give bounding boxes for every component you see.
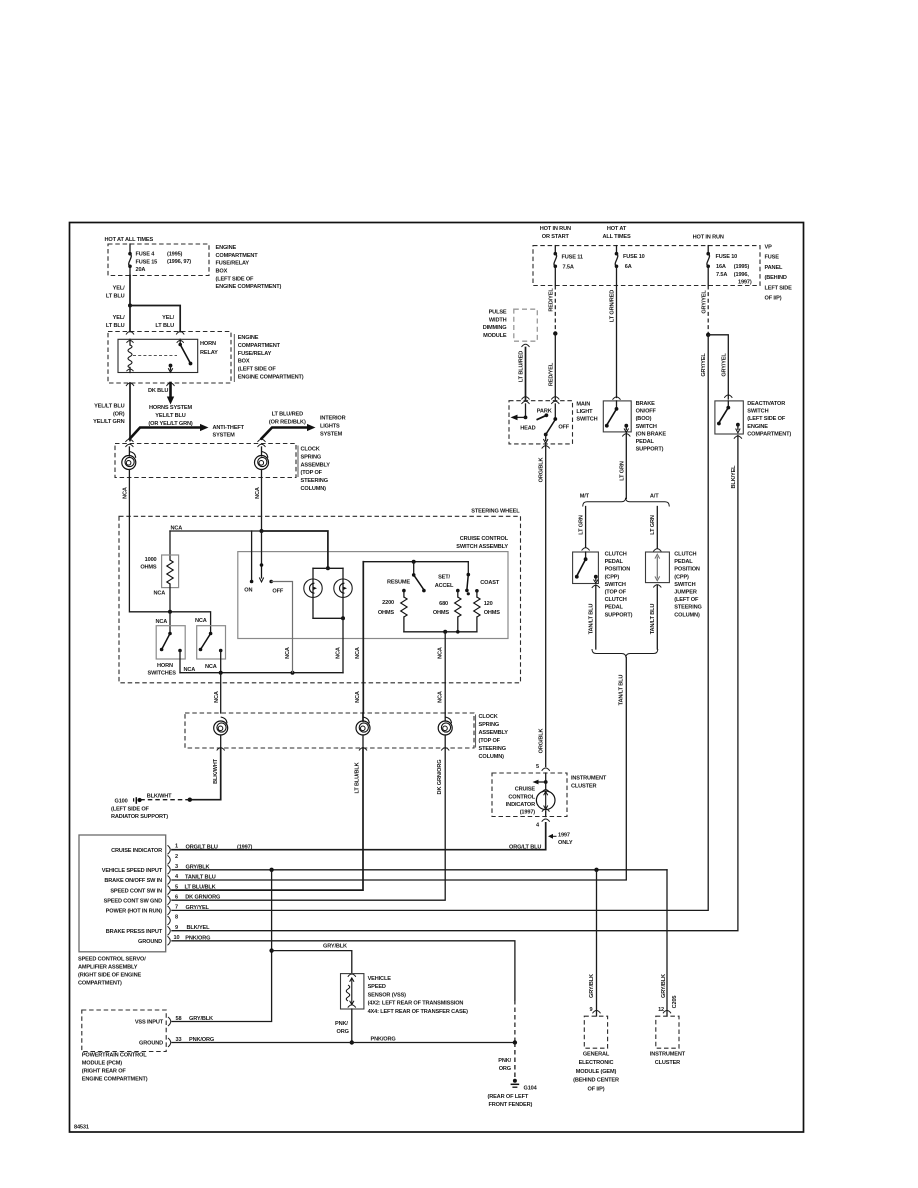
svg-text:NCA: NCA xyxy=(214,691,220,703)
svg-text:VEHICLE: VEHICLE xyxy=(368,976,392,982)
svg-text:GRY/BLK: GRY/BLK xyxy=(323,944,347,950)
PCM pin numbers 58 33 xyxy=(176,1016,182,1043)
svg-text:SPEED CONT SW IN: SPEED CONT SW IN xyxy=(110,888,162,894)
svg-text:SPEED: SPEED xyxy=(368,984,386,990)
svg-text:NCA: NCA xyxy=(336,647,342,659)
svg-text:(OR YEL/LT GRN): (OR YEL/LT GRN) xyxy=(148,421,192,427)
svg-text:RED/YEL: RED/YEL xyxy=(549,288,555,312)
svg-text:ASSEMBLY: ASSEMBLY xyxy=(479,730,509,736)
svg-text:ANTI-THEFT: ANTI-THEFT xyxy=(213,425,245,431)
svg-text:NCA: NCA xyxy=(285,647,291,659)
svg-text:(TOP OF: (TOP OF xyxy=(479,738,501,744)
svg-text:FUSE 15: FUSE 15 xyxy=(136,260,158,266)
svg-text:GRY/YEL: GRY/YEL xyxy=(701,290,707,314)
svg-text:ON: ON xyxy=(244,588,252,594)
svg-text:PEDAL: PEDAL xyxy=(605,559,624,565)
horn switch 1 xyxy=(156,619,186,673)
svg-text:FUSE: FUSE xyxy=(765,255,780,261)
net HOT IN RUN OR START xyxy=(540,226,571,240)
svg-text:CRUISE: CRUISE xyxy=(515,787,536,793)
svg-text:DEACTIVATOR: DEACTIVATOR xyxy=(747,401,785,407)
svg-text:DK GRN/ORG: DK GRN/ORG xyxy=(437,760,443,795)
svg-text:COMPARTMENT): COMPARTMENT) xyxy=(747,431,791,437)
svg-text:OHMS: OHMS xyxy=(484,610,501,616)
svg-text:YEL/: YEL/ xyxy=(113,315,125,321)
wire LT GRN A/T branch xyxy=(650,507,661,552)
svg-text:SYSTEM: SYSTEM xyxy=(213,433,236,439)
ground G104 xyxy=(511,1079,538,1092)
svg-text:TAN/LT BLU: TAN/LT BLU xyxy=(619,675,625,706)
cruise control indicator box (dashed) xyxy=(492,773,567,817)
vehicle speed sensor VSS xyxy=(341,974,364,1009)
svg-text:7.5A: 7.5A xyxy=(563,265,574,271)
svg-text:OF I/P): OF I/P) xyxy=(588,1087,605,1093)
label deactivator switch xyxy=(747,401,791,437)
svg-text:HOT AT: HOT AT xyxy=(607,226,627,232)
svg-text:ONLY: ONLY xyxy=(558,840,573,846)
junction pin3/GEM xyxy=(594,868,598,872)
svg-text:LT BLU/BLK: LT BLU/BLK xyxy=(355,762,361,793)
svg-text:M/T: M/T xyxy=(580,493,590,499)
svg-text:LT BLU: LT BLU xyxy=(155,323,174,329)
svg-text:LT BLU/BLK: LT BLU/BLK xyxy=(185,885,216,891)
wire NCA left clock spring to wheel xyxy=(123,478,130,517)
fuse F11 7.5A xyxy=(554,246,583,286)
VP fuse panel box (dashed) xyxy=(533,246,760,286)
fuse F4/F15 20A xyxy=(128,244,132,276)
svg-text:NCA: NCA xyxy=(123,487,129,499)
svg-text:SPEED CONTROL SERVO/: SPEED CONTROL SERVO/ xyxy=(78,957,146,963)
svg-text:FUSE 10: FUSE 10 xyxy=(623,254,645,260)
clock spring coil left xyxy=(122,447,136,478)
wire GRY/BLK down to PCM pin 58 xyxy=(172,870,272,1022)
svg-text:4X4: LEFT REAR OF TRANSFER CAS: 4X4: LEFT REAR OF TRANSFER CASE) xyxy=(368,1009,469,1015)
svg-text:NCA: NCA xyxy=(154,591,166,597)
resistor R1 1000 OHMS xyxy=(140,531,178,612)
svg-text:OF I/P): OF I/P) xyxy=(765,296,782,302)
svg-text:PEDAL: PEDAL xyxy=(636,439,655,445)
svg-text:NCA: NCA xyxy=(156,619,168,625)
svg-text:A/T: A/T xyxy=(650,493,659,499)
svg-text:BOX: BOX xyxy=(238,359,250,365)
svg-text:OHMS: OHMS xyxy=(140,565,157,571)
fuse F10 16A/7.5A xyxy=(706,246,751,286)
label VSS xyxy=(368,976,469,1015)
svg-text:INSTRUMENT: INSTRUMENT xyxy=(650,1051,686,1057)
main light switch box (dashed) xyxy=(509,401,573,444)
wire TAN/LT BLU from CPP switch xyxy=(588,585,595,649)
lamp L1 xyxy=(304,568,322,618)
svg-text:(LEFT SIDE OF: (LEFT SIDE OF xyxy=(111,806,150,812)
svg-text:DIMMING: DIMMING xyxy=(483,325,507,331)
clock spring coil right xyxy=(255,447,269,478)
svg-text:ORG: ORG xyxy=(337,1029,349,1035)
wire NCA horizontal resistor to ON xyxy=(170,526,262,582)
junction VSS branch xyxy=(269,948,273,952)
svg-text:2200: 2200 xyxy=(382,600,394,606)
bracket + label engine compartment fuse/relay box (right) xyxy=(233,334,235,382)
junction GRY/YEL xyxy=(706,333,710,337)
svg-text:CLOCK: CLOCK xyxy=(479,714,498,720)
svg-text:(OR): (OR) xyxy=(113,411,125,417)
net HOT IN RUN xyxy=(693,234,724,240)
svg-text:RELAY: RELAY xyxy=(200,350,218,356)
svg-text:INTERIOR: INTERIOR xyxy=(320,416,346,422)
svg-text:LT BLU/RED: LT BLU/RED xyxy=(272,412,303,418)
wire TAN/LT BLU from jumper xyxy=(650,585,657,649)
svg-text:RADIATOR SUPPORT): RADIATOR SUPPORT) xyxy=(111,814,168,820)
general electronic module GEM box (dashed) xyxy=(584,1016,607,1048)
wire labels GRY/BLK PNK/ORG at PCM xyxy=(189,1016,214,1043)
wire GRY/YEL main to servo pin7 xyxy=(172,335,708,911)
clock spring coil 2a xyxy=(214,717,228,748)
svg-text:AMPLIFIER ASSEMBLY: AMPLIFIER ASSEMBLY xyxy=(78,965,138,971)
svg-text:G104: G104 xyxy=(524,1085,538,1091)
light switch internals xyxy=(511,404,570,443)
wire OFF contact down (NCA) xyxy=(271,582,292,673)
svg-text:1997): 1997) xyxy=(738,280,752,286)
svg-text:CLUTCH: CLUTCH xyxy=(605,597,627,603)
svg-text:3: 3 xyxy=(175,864,178,870)
svg-text:(LEFT OF: (LEFT OF xyxy=(674,597,699,603)
svg-text:NCA: NCA xyxy=(205,664,217,670)
svg-text:(TOP OF: (TOP OF xyxy=(605,590,627,596)
horn relay inner box xyxy=(118,339,198,372)
svg-text:7.5A: 7.5A xyxy=(716,272,727,278)
svg-text:FUSE 10: FUSE 10 xyxy=(716,254,738,260)
svg-text:ORG/LT BLU: ORG/LT BLU xyxy=(509,845,541,851)
svg-text:CLUSTER: CLUSTER xyxy=(655,1060,680,1066)
ON/OFF switch pole xyxy=(244,531,284,595)
wire PNK/ORG VSS to ground bus xyxy=(335,1009,352,1043)
label cruise control indicator (1997) xyxy=(506,787,536,816)
svg-text:5: 5 xyxy=(536,764,539,770)
svg-text:YEL/LT BLU: YEL/LT BLU xyxy=(94,404,125,410)
wire LT GRN/RED to BOO switch xyxy=(609,286,616,398)
wire NCA network left leg down to clock spring 2 xyxy=(355,562,363,713)
label speed control servo assembly xyxy=(78,957,146,987)
svg-text:GRY/BLK: GRY/BLK xyxy=(589,974,595,998)
svg-text:GRY/YEL: GRY/YEL xyxy=(186,905,210,911)
svg-text:WIDTH: WIDTH xyxy=(489,317,507,323)
svg-text:ENGINE COMPARTMENT): ENGINE COMPARTMENT) xyxy=(238,374,304,380)
speed control servo/amplifier assembly box xyxy=(79,835,166,952)
wire dashed to G100 xyxy=(141,794,190,800)
svg-text:NCA: NCA xyxy=(437,647,443,659)
svg-text:LT BLU/RED: LT BLU/RED xyxy=(518,351,524,382)
pin 4 indicator xyxy=(536,819,550,828)
svg-text:CLOCK: CLOCK xyxy=(301,447,320,453)
wire PCM pin33 PNK/ORG ground bus xyxy=(172,1037,515,1043)
svg-text:RESUME: RESUME xyxy=(387,580,410,586)
svg-text:PANEL: PANEL xyxy=(765,265,784,271)
svg-text:SPEED CONT SW GND: SPEED CONT SW GND xyxy=(104,898,162,904)
resistor R2 2200 OHMS xyxy=(378,589,407,632)
label HORN RELAY xyxy=(200,341,218,356)
engine compartment fuse/relay box (dashed) xyxy=(108,244,209,276)
labels YEL/LT BLU pair xyxy=(106,315,175,329)
wire NCA bus down to clock spring 2 xyxy=(214,673,221,713)
label instrument cluster xyxy=(571,775,607,789)
connector chevrons at relay box top xyxy=(126,332,184,335)
label interior lights system xyxy=(320,416,346,438)
svg-text:MODULE (GEM): MODULE (GEM) xyxy=(576,1069,617,1075)
svg-text:YEL/LT GRN: YEL/LT GRN xyxy=(93,419,124,425)
svg-text:ENGINE: ENGINE xyxy=(747,424,768,430)
wire network bottom bus xyxy=(404,630,477,634)
svg-text:ENGINE COMPARTMENT): ENGINE COMPARTMENT) xyxy=(216,284,282,290)
svg-text:BRAKE ON/OFF SW IN: BRAKE ON/OFF SW IN xyxy=(104,878,162,884)
bracket + label clock spring assembly 2 xyxy=(475,715,477,748)
label G104 location xyxy=(488,1094,533,1108)
svg-text:YEL/LT BLU: YEL/LT BLU xyxy=(155,413,186,419)
svg-text:ENGINE: ENGINE xyxy=(216,245,237,251)
junction above horn switch 1 xyxy=(168,610,172,634)
svg-text:BRAKE PRESS INPUT: BRAKE PRESS INPUT xyxy=(106,929,163,935)
pin 12 instrument cluster connector xyxy=(658,1007,671,1013)
svg-text:DK GRN/ORG: DK GRN/ORG xyxy=(185,895,220,901)
svg-text:2: 2 xyxy=(175,854,178,860)
svg-text:LT GRN: LT GRN xyxy=(619,461,625,481)
svg-text:LT BLU: LT BLU xyxy=(106,323,125,329)
svg-text:OHMS: OHMS xyxy=(378,610,395,616)
wire DK GRN/ORG clock spring to servo pin6 xyxy=(172,748,445,900)
svg-text:TAN/LT BLU: TAN/LT BLU xyxy=(185,875,216,881)
relay switch contacts xyxy=(168,339,192,372)
svg-text:STEERING: STEERING xyxy=(674,605,701,611)
svg-text:(BEHIND CENTER: (BEHIND CENTER xyxy=(573,1078,619,1084)
wire arrow to interior lights system xyxy=(262,424,316,439)
svg-text:LT GRN: LT GRN xyxy=(650,515,656,535)
label PCM xyxy=(82,1053,148,1083)
svg-text:CRUISE CONTROL: CRUISE CONTROL xyxy=(460,536,509,542)
svg-text:SWITCH: SWITCH xyxy=(605,582,626,588)
svg-text:12: 12 xyxy=(658,1007,664,1013)
chevron below light switch xyxy=(542,446,550,449)
wire lamp bottom loop xyxy=(313,616,345,672)
svg-text:LIGHTS: LIGHTS xyxy=(320,423,340,429)
svg-text:SWITCH: SWITCH xyxy=(636,424,657,430)
wire LT GRN BOO to clutch split xyxy=(619,433,626,499)
relay actuation dashed link xyxy=(133,355,177,357)
resistor R3 680 OHMS xyxy=(433,589,461,632)
pin 5 indicator xyxy=(536,764,550,771)
wire resume network top bus xyxy=(363,560,468,564)
border frame xyxy=(70,223,804,1133)
svg-text:10: 10 xyxy=(174,935,180,941)
wire TAN/LT BLU merged to servo pin4 xyxy=(172,658,626,881)
svg-text:(1995): (1995) xyxy=(167,252,183,258)
wire servo pin10 PNK/ORG to ground bus xyxy=(172,941,515,1043)
svg-text:G100: G100 xyxy=(115,799,128,805)
svg-text:TAN/LT BLU: TAN/LT BLU xyxy=(588,604,594,635)
wire lamp feed from junction xyxy=(262,531,344,570)
svg-text:OFF: OFF xyxy=(558,425,569,431)
wire branch right to horn relay xyxy=(130,306,180,332)
svg-text:C205: C205 xyxy=(672,996,678,1009)
label anti-theft system xyxy=(213,425,245,439)
svg-text:SWITCHES: SWITCHES xyxy=(148,670,177,676)
switch COAST label xyxy=(480,580,500,586)
wire LT BLU/BLK clock spring to servo pin5 xyxy=(172,748,363,890)
svg-text:(1995): (1995) xyxy=(734,264,750,270)
svg-text:(4X2: LEFT REAR OF TRANSMISSIO: (4X2: LEFT REAR OF TRANSMISSION xyxy=(368,1001,464,1007)
svg-text:58: 58 xyxy=(176,1016,182,1022)
svg-text:9: 9 xyxy=(175,925,178,931)
plate number 84531 xyxy=(74,1125,89,1131)
junction VSS/PNK-ORG bus xyxy=(350,1040,354,1044)
instrument cluster box (dashed) xyxy=(656,1016,679,1048)
svg-text:1997: 1997 xyxy=(558,832,570,838)
horn relay outer dashed box (engine compartment fuse/relay box) xyxy=(108,332,231,384)
svg-text:PULSE: PULSE xyxy=(489,310,507,316)
switch RESUME xyxy=(387,562,426,593)
horn bus wire xyxy=(180,671,343,675)
svg-text:HORN: HORN xyxy=(200,341,216,347)
svg-text:ORG/BLK: ORG/BLK xyxy=(538,729,544,754)
svg-text:(1996,: (1996, xyxy=(734,272,750,278)
svg-text:STEERING WHEEL: STEERING WHEEL xyxy=(471,509,520,515)
powertrain control module PCM box (dashed) xyxy=(82,1010,166,1052)
svg-text:FUSE 4: FUSE 4 xyxy=(136,252,156,258)
svg-text:SYSTEM: SYSTEM xyxy=(320,431,343,437)
svg-text:LT BLU: LT BLU xyxy=(106,294,125,300)
svg-text:OFF: OFF xyxy=(272,589,283,595)
chevrons clock spring 2 bottom xyxy=(217,748,450,751)
label horns system destination xyxy=(148,405,192,427)
svg-text:(BOO): (BOO) xyxy=(636,416,652,422)
svg-text:CLUSTER: CLUSTER xyxy=(571,783,596,789)
wire arrow to anti-theft system xyxy=(130,424,209,439)
svg-text:120: 120 xyxy=(484,601,493,607)
svg-text:HEAD: HEAD xyxy=(520,426,535,432)
svg-text:(1997): (1997) xyxy=(520,810,536,816)
svg-text:CLUTCH: CLUTCH xyxy=(605,552,627,558)
svg-text:ORG: ORG xyxy=(499,1066,511,1072)
label pulse width dimming module xyxy=(483,310,507,340)
svg-text:POSITION: POSITION xyxy=(674,567,700,573)
svg-text:(REAR OF LEFT: (REAR OF LEFT xyxy=(488,1094,529,1100)
wire labels at servo pins xyxy=(185,845,253,942)
svg-text:ON/OFF: ON/OFF xyxy=(636,409,657,415)
svg-text:CONTROL: CONTROL xyxy=(508,794,535,800)
note 1997 only xyxy=(548,832,573,846)
svg-text:16A: 16A xyxy=(716,264,726,270)
svg-text:BRAKE: BRAKE xyxy=(636,401,656,407)
svg-text:ALL TIMES: ALL TIMES xyxy=(602,234,630,240)
svg-text:JUMPER: JUMPER xyxy=(674,590,697,596)
steering wheel box (dashed) xyxy=(119,509,521,683)
cruise control switch assembly box xyxy=(238,536,509,639)
svg-text:INSTRUMENT: INSTRUMENT xyxy=(571,775,607,781)
clock spring coil 2b xyxy=(356,713,370,748)
svg-text:SPRING: SPRING xyxy=(479,722,500,728)
svg-text:6A: 6A xyxy=(625,264,632,270)
PCM internal labels xyxy=(135,1020,164,1047)
svg-text:NCA: NCA xyxy=(255,487,261,499)
svg-text:LEFT SIDE: LEFT SIDE xyxy=(765,285,793,291)
svg-text:(CPP): (CPP) xyxy=(674,574,689,580)
svg-text:1000: 1000 xyxy=(145,557,157,563)
pulse width dimming module box (dashed gray) xyxy=(514,309,538,341)
relay coil K1 xyxy=(127,339,134,372)
wire YEL/LT BLU fuse to junction xyxy=(106,276,130,306)
svg-text:COLUMN): COLUMN) xyxy=(674,612,700,618)
svg-text:ACCEL: ACCEL xyxy=(435,583,454,589)
clutch pedal position CPP switch xyxy=(573,552,600,588)
svg-text:ELECTRONIC: ELECTRONIC xyxy=(579,1060,614,1066)
lamp L2 xyxy=(334,568,352,618)
label BOO switch xyxy=(636,401,667,453)
clock spring assembly box 1 (dashed) xyxy=(115,444,296,478)
svg-text:HORN: HORN xyxy=(157,663,173,669)
wire RED/YEL dashed segment xyxy=(549,286,556,334)
servo pin connector chevrons xyxy=(168,845,171,945)
svg-text:BLK/WHT: BLK/WHT xyxy=(147,794,172,800)
svg-text:GRY/BLK: GRY/BLK xyxy=(661,974,667,998)
svg-text:PARK: PARK xyxy=(537,408,552,414)
svg-text:FUSE 11: FUSE 11 xyxy=(562,255,583,261)
svg-text:SWITCH: SWITCH xyxy=(747,409,768,415)
svg-text:SET/: SET/ xyxy=(438,575,450,581)
svg-text:TAN/LT BLU: TAN/LT BLU xyxy=(650,604,656,635)
wire GRY/YEL dashed segment xyxy=(701,286,708,335)
svg-text:(LEFT SIDE OF: (LEFT SIDE OF xyxy=(747,416,786,422)
svg-text:(TOP OF: (TOP OF xyxy=(301,470,323,476)
svg-text:7: 7 xyxy=(175,905,178,911)
clock spring coil 2c xyxy=(438,713,452,748)
svg-text:OR START: OR START xyxy=(542,234,570,240)
svg-text:POWER (HOT IN RUN): POWER (HOT IN RUN) xyxy=(106,909,163,915)
svg-text:MODULE: MODULE xyxy=(483,333,507,339)
wire NCA network to clock spring 2 xyxy=(437,632,445,713)
wire dashed PNK/ORG down to G104 xyxy=(498,1043,515,1079)
label instrument cluster xyxy=(650,1051,686,1066)
svg-text:BOX: BOX xyxy=(216,269,228,275)
svg-text:NCA: NCA xyxy=(355,647,361,659)
svg-text:LT GRN/RED: LT GRN/RED xyxy=(609,290,615,322)
svg-text:SWITCH: SWITCH xyxy=(576,417,597,423)
svg-text:DK BLU: DK BLU xyxy=(148,388,168,394)
node merge brace xyxy=(592,649,658,658)
svg-text:(OR RED/BLK): (OR RED/BLK) xyxy=(269,420,306,426)
junction on NCA line xyxy=(260,529,264,533)
svg-text:GRY/YEL: GRY/YEL xyxy=(722,353,728,377)
label G100 location xyxy=(111,806,168,820)
svg-text:20A: 20A xyxy=(136,267,146,273)
wire DK BLU arrow to horns system xyxy=(148,383,174,405)
junction pin3/PCM xyxy=(269,868,273,872)
svg-text:YEL/: YEL/ xyxy=(113,286,125,292)
svg-text:COAST: COAST xyxy=(480,580,500,586)
svg-text:(LEFT SIDE OF: (LEFT SIDE OF xyxy=(216,276,255,282)
svg-text:COMPARTMENT: COMPARTMENT xyxy=(238,343,281,349)
svg-text:SWITCH: SWITCH xyxy=(674,582,695,588)
bracket + label clock spring assembly 1 xyxy=(297,446,299,478)
svg-text:POSITION: POSITION xyxy=(605,567,631,573)
chevrons at light switch entries xyxy=(522,397,560,404)
svg-text:RED/YEL: RED/YEL xyxy=(549,362,555,386)
fuse F10 6A xyxy=(615,246,645,286)
connector chevrons clock spring 1 entries xyxy=(125,439,265,447)
label CPP switch jumper xyxy=(674,552,701,619)
clock spring assembly box 2 (dashed) xyxy=(185,713,474,748)
wire servo pin3 GRY/BLK bus to cluster xyxy=(172,869,667,871)
svg-text:BLK/YEL: BLK/YEL xyxy=(187,925,211,931)
svg-text:6: 6 xyxy=(175,894,178,900)
svg-text:STEERING: STEERING xyxy=(479,746,506,752)
svg-text:SWITCH ASSEMBLY: SWITCH ASSEMBLY xyxy=(456,544,508,550)
